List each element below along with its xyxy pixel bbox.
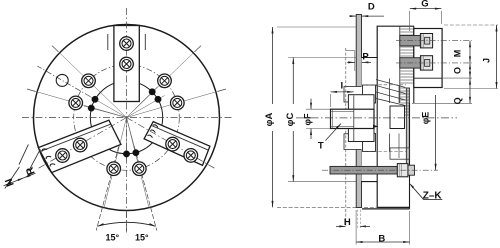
radial line to screw at 16 deg (127, 92, 217, 118)
front face upper line (413, 26, 415, 103)
svg-text:G: G (421, 0, 428, 10)
plunger hidden line bottom (363, 151, 407, 153)
label P (362, 51, 369, 62)
R-N extension lines (5, 144, 41, 188)
leader T (326, 124, 342, 141)
label M (452, 50, 462, 58)
horizontal centerline (22, 117, 232, 119)
dimension chain M-O-Q (412, 41, 472, 104)
dimension phiA line (272, 27, 274, 207)
chuck outer body circle (front view) (34, 25, 220, 211)
svg-text:T: T (318, 140, 324, 151)
radial line to pin at 45 deg (127, 86, 158, 117)
draw nut face line (353, 96, 355, 142)
15 deg dimension arc (97, 222, 155, 226)
svg-text:Z–K: Z–K (423, 190, 443, 201)
svg-text:D: D (368, 1, 375, 12)
bolt circle (chain line) (74, 65, 180, 171)
plunger lower pass-through (344, 134, 363, 150)
right jaw screw inner (166, 137, 180, 151)
top jaw block (side) (414, 29, 442, 88)
right jaw screw outer (184, 149, 198, 163)
top jaw screw 1 (120, 37, 134, 51)
label O (452, 67, 462, 74)
front face lower line (409, 103, 411, 209)
phiC bottom extension line (288, 181, 362, 183)
spindle datum line (345, 48, 347, 227)
socket head screw at 16 deg (171, 96, 185, 110)
radial line to pin at 270 deg (126, 118, 128, 162)
rim tick at 16 deg (217, 89, 226, 92)
socket head screw at 44 deg (158, 74, 172, 88)
svg-text:φE: φE (420, 112, 430, 124)
label R (24, 165, 38, 177)
label phiE (420, 112, 430, 124)
label B (378, 233, 385, 244)
top jaw block (114, 26, 139, 102)
dimension phiF line (310, 99, 312, 139)
label G (421, 0, 428, 10)
phiA bottom extension line (277, 206, 410, 208)
wedge contact diagonals (376, 80, 406, 106)
phiC top extension line (288, 57, 362, 59)
center small arrow (373, 125, 379, 128)
dimension B (356, 210, 410, 245)
draw nut flange (348, 95, 374, 142)
side view centerline (296, 117, 457, 119)
svg-text:φC: φC (285, 113, 296, 127)
backplate (section) (356, 15, 361, 208)
top jaw step line (414, 77, 442, 79)
dimension J (444, 25, 498, 89)
socket head screw at 284 deg (133, 162, 147, 176)
left jaw serrations (42, 149, 55, 167)
rim tick at 164 deg (27, 89, 36, 92)
front cover band (section) (406, 88, 409, 175)
phiF bottom extension line (306, 128, 331, 130)
svg-text:15°: 15° (105, 233, 119, 243)
radial line to screw at 164 deg (37, 92, 127, 118)
radial line to pin at 165 deg (84, 106, 127, 117)
phiA top extension line (277, 26, 356, 28)
svg-text:M: M (452, 50, 462, 58)
draw nut thread lines (331, 109, 354, 128)
locating pin (filled) at 30 deg (155, 96, 161, 102)
label H (344, 217, 351, 228)
center boss block (390, 106, 405, 129)
vertical line below chuck (126, 212, 128, 233)
dimension I (331, 91, 354, 107)
locating pin (filled) at 45 deg (149, 89, 155, 95)
pilot hole (56, 74, 68, 86)
svg-text:Q: Q (452, 97, 462, 104)
dimension phiE (435, 95, 437, 170)
svg-text:I: I (340, 81, 343, 92)
master jaw serrations (400, 26, 414, 115)
mounting bolt Z-K (section) (330, 164, 415, 177)
radial line to screw at 284 deg (127, 118, 150, 209)
socket head screw at 136 deg (82, 74, 96, 88)
locating pin (filled) at 165 deg (88, 105, 94, 111)
jaw guide slot line right (144, 34, 146, 50)
plunger upper pass-through (344, 87, 363, 103)
plunger centerline 255 deg (96, 147, 119, 231)
svg-text:H: H (344, 217, 351, 228)
right jaw block (144, 122, 210, 166)
label T (318, 140, 324, 151)
wedge verticals (390, 79, 400, 159)
pilot hole radial centerline (37, 66, 90, 97)
locating pin (filled) at 285 deg (133, 150, 139, 156)
label Z-K (423, 190, 443, 201)
label N (3, 177, 17, 188)
dimension P (346, 51, 372, 71)
label I (340, 81, 343, 92)
right jaw axis centerline (127, 118, 217, 170)
svg-text:φF: φF (303, 113, 313, 125)
jaw guide slot line left (107, 34, 109, 50)
dimension G line (410, 8, 442, 31)
label phiC (285, 104, 299, 131)
label 15 deg right (135, 233, 149, 243)
dimension R-N line (4, 173, 36, 186)
label phiF (303, 113, 313, 125)
jaw mounting screw lower (side) (400, 56, 433, 70)
label J (482, 58, 492, 63)
svg-text:15°: 15° (135, 233, 149, 243)
rear boss outline (362, 58, 378, 182)
vertical centerline (126, 8, 128, 233)
left jaw step line (40, 124, 111, 151)
svg-text:J: J (482, 58, 492, 63)
bolt axis centerline (322, 169, 438, 171)
dimension H (336, 210, 370, 230)
right jaw serrations (148, 125, 159, 138)
plunger hidden line top (363, 84, 407, 86)
draw nut cylinder (331, 109, 375, 128)
dimension D (350, 15, 384, 17)
socket head screw at 256 deg (107, 162, 121, 176)
socket head screw at 164 deg (69, 96, 83, 110)
top jaw screw 2 (120, 57, 134, 71)
body bottom edge (362, 208, 410, 210)
radial line to pin at 150 deg (88, 96, 126, 118)
radial line to pin at 30 deg (127, 96, 165, 118)
leader Z-K (410, 183, 443, 199)
svg-text:φA: φA (264, 113, 275, 127)
radial line to screw at 136 deg (59, 53, 126, 118)
right jaw step line (152, 126, 209, 151)
jaw mounting screw upper (side) (400, 34, 433, 48)
radial line to screw at 44 deg (127, 53, 194, 118)
chuck body outline (377, 26, 414, 207)
screw axis upper centerline (396, 40, 472, 42)
dimension phiC line (292, 58, 294, 182)
locating pin (filled) at 270 deg (123, 151, 129, 157)
label 15 deg left (105, 233, 119, 243)
phiF top extension line (306, 108, 331, 110)
svg-text:O: O (452, 67, 462, 74)
label D (368, 1, 375, 12)
locating pin (filled) at 150 deg (92, 96, 98, 102)
rim tick at 44 deg (195, 46, 202, 52)
radial line to pin at 285 deg (127, 118, 138, 161)
rim tick at 136 deg (52, 46, 59, 52)
label Q (452, 97, 462, 104)
label phiA (264, 104, 278, 131)
plunger centerline 285 deg (134, 147, 157, 231)
svg-text:B: B (378, 233, 385, 244)
left jaw block (38, 120, 121, 172)
lower guide blocks (390, 148, 409, 159)
screw axis lower centerline (396, 62, 472, 64)
wedge plunger blocks (363, 85, 376, 152)
left jaw axis centerline (36, 118, 126, 170)
front boss circle (90, 81, 162, 153)
left jaw screw inner (73, 138, 87, 152)
left jaw screw outer (56, 149, 70, 163)
radial line to screw at 256 deg (104, 118, 127, 209)
svg-text:P: P (362, 51, 369, 62)
